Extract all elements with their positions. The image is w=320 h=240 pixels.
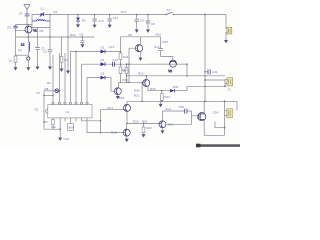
wire IF pin column 2 bbox=[59, 53, 61, 102]
transistor Q8 mosfet bbox=[198, 113, 206, 121]
wire pin column 5 bbox=[75, 52, 77, 102]
svg-text:C13: C13 bbox=[109, 45, 115, 49]
svg-text:R1: R1 bbox=[8, 25, 12, 29]
wire rail right bbox=[174, 15, 226, 29]
resistor R4 bbox=[60, 37, 68, 69]
wire Q7 emitter bbox=[162, 128, 164, 131]
transistor VT2 bbox=[168, 60, 176, 73]
wire pin jumper bbox=[44, 95, 53, 97]
svg-text:VCC: VCC bbox=[121, 10, 128, 14]
wire trimmer to ground bbox=[27, 60, 29, 67]
svg-text:R5: R5 bbox=[40, 29, 44, 33]
svg-text:C8: C8 bbox=[151, 22, 155, 26]
svg-text:R13: R13 bbox=[163, 40, 169, 44]
inductor L1 coil bbox=[32, 20, 50, 21]
svg-text:R18: R18 bbox=[111, 130, 117, 134]
wire audio line bbox=[164, 110, 192, 112]
capacitor C11 bbox=[108, 14, 119, 25]
title band bottom right bbox=[196, 144, 240, 148]
wire tank right bbox=[49, 15, 51, 50]
wire VT1 base riser bbox=[129, 48, 138, 82]
wire Q5 emitter bbox=[126, 111, 128, 123]
wire long mid line bbox=[127, 75, 226, 77]
wire ladder top riser bbox=[120, 37, 122, 52]
svg-text:R30: R30 bbox=[150, 87, 156, 91]
svg-text:36M: 36M bbox=[68, 126, 74, 130]
capacitor C1 bbox=[19, 11, 30, 24]
svg-text:L2: L2 bbox=[21, 43, 25, 47]
svg-text:V1: V1 bbox=[33, 29, 37, 33]
svg-text:R24: R24 bbox=[164, 95, 170, 99]
trimmer T1 bbox=[27, 57, 30, 60]
connector J3 bbox=[213, 109, 233, 118]
capacitor C6 bbox=[135, 14, 144, 30]
wire bias row bbox=[16, 54, 29, 56]
svg-text:C4: C4 bbox=[19, 11, 23, 15]
IC pin stub 5b bbox=[75, 118, 77, 122]
svg-text:R12: R12 bbox=[121, 68, 127, 72]
ground (VT1) bbox=[139, 58, 143, 61]
ground (IC) bbox=[58, 137, 69, 141]
wire Q3 base bbox=[111, 90, 117, 92]
svg-text:R19: R19 bbox=[119, 96, 125, 100]
wire source inner elbow bbox=[215, 121, 225, 127]
svg-text:R23: R23 bbox=[146, 126, 152, 130]
svg-text:C16: C16 bbox=[64, 137, 70, 141]
wire IC left pin bbox=[44, 121, 48, 123]
node antenna junction bbox=[26, 24, 28, 26]
svg-text:D3: D3 bbox=[101, 72, 105, 76]
main right bus bbox=[204, 15, 206, 102]
svg-text:R22: R22 bbox=[138, 72, 144, 76]
resistor R10b bbox=[51, 118, 56, 129]
ground (C11) bbox=[108, 25, 112, 28]
ground (Q7) bbox=[161, 130, 165, 133]
switch S1 bbox=[166, 8, 175, 15]
wire Q3 emitter bbox=[117, 95, 119, 96]
svg-text:R6: R6 bbox=[128, 33, 132, 37]
wire IF pin column 3 bbox=[64, 53, 66, 102]
svg-text:C34: C34 bbox=[213, 110, 219, 114]
svg-text:1k: 1k bbox=[9, 59, 13, 63]
wire rail ground branch bbox=[67, 15, 69, 71]
IC U1 bbox=[46, 105, 92, 118]
svg-text:C9: C9 bbox=[79, 33, 83, 37]
wire trimmer line bbox=[44, 89, 60, 93]
wire pin to Q5 elbow bbox=[82, 110, 126, 133]
wire Q6 collector bbox=[126, 123, 128, 129]
connector J2 bbox=[225, 78, 233, 92]
ground stub 1 on bias line bbox=[66, 71, 70, 74]
wire Q3 collector bbox=[117, 82, 119, 88]
svg-text:R11: R11 bbox=[123, 55, 129, 59]
top supply rail bbox=[50, 14, 166, 16]
wire VT2 output bbox=[150, 64, 187, 76]
svg-text:Aud: Aud bbox=[166, 107, 172, 111]
resistor R14 bbox=[119, 64, 129, 83]
wire Q4 collector bbox=[145, 76, 147, 80]
svg-text:D5: D5 bbox=[82, 19, 86, 23]
node dots bias line bbox=[28, 36, 30, 38]
capacitor C15 bbox=[112, 58, 118, 67]
svg-text:C6: C6 bbox=[140, 19, 144, 23]
svg-text:C12: C12 bbox=[154, 45, 160, 49]
wire Q7 output bbox=[166, 123, 192, 125]
ground (L2) bbox=[26, 67, 30, 70]
wire det line 2 bbox=[82, 64, 188, 102]
wire right link vertical bbox=[224, 80, 226, 87]
svg-text:R9: R9 bbox=[47, 81, 51, 85]
ground (R24) bbox=[159, 101, 163, 107]
wire base V1 bbox=[16, 30, 26, 37]
svg-text:C31: C31 bbox=[212, 70, 218, 74]
wire bottom jumper bbox=[44, 128, 60, 130]
crystal X1 bbox=[68, 118, 75, 130]
svg-text:J2: J2 bbox=[228, 87, 232, 91]
capacitor C3 bbox=[35, 28, 45, 67]
diode VD6 bbox=[170, 85, 187, 92]
inductor L2 bbox=[21, 42, 30, 52]
svg-text:R26: R26 bbox=[142, 119, 148, 123]
transistor V1 bbox=[25, 26, 37, 33]
wire det line 3 bbox=[87, 78, 111, 102]
wire VT1 collector bbox=[140, 37, 142, 45]
svg-text:C11: C11 bbox=[113, 16, 119, 20]
wire Q3 collector / Q4 base line bbox=[118, 81, 145, 83]
wire VT2 base bbox=[172, 57, 174, 61]
svg-text:R20: R20 bbox=[133, 119, 139, 123]
transistor Q4 bbox=[143, 80, 150, 87]
ground (D5) bbox=[76, 24, 80, 27]
wire long bias line bbox=[16, 36, 95, 38]
wire Q8 drain bbox=[203, 101, 205, 114]
wire tank left bbox=[31, 15, 33, 28]
svg-text:S1: S1 bbox=[167, 8, 171, 12]
svg-text:D1: D1 bbox=[101, 45, 105, 49]
connector J1 bbox=[226, 27, 232, 40]
svg-text:R16: R16 bbox=[123, 78, 129, 82]
ground (R23) bbox=[142, 134, 146, 137]
ground (C10) bbox=[93, 25, 97, 28]
wire pin gnd column bbox=[59, 118, 61, 138]
ground (C4b) bbox=[48, 67, 52, 70]
wire J2 feed bbox=[205, 79, 225, 81]
wire Q5 collector line bbox=[127, 101, 237, 110]
ground (C8) bbox=[146, 30, 150, 33]
transistor Q5 bbox=[124, 104, 131, 111]
ground (Q6) bbox=[125, 139, 129, 142]
wire gate link bbox=[192, 111, 199, 124]
capacitor C2 bbox=[8, 25, 18, 32]
wire collector rail bbox=[32, 28, 50, 33]
svg-text:R7: R7 bbox=[37, 91, 41, 95]
diode D3 bbox=[101, 72, 106, 80]
wire Q4 emitter line bbox=[148, 86, 170, 90]
wire emitter V1 bbox=[27, 33, 29, 42]
wire below L2 bbox=[27, 52, 29, 57]
svg-text:R8: R8 bbox=[45, 87, 49, 91]
svg-text:R29: R29 bbox=[134, 89, 140, 93]
svg-text:R15: R15 bbox=[156, 33, 162, 37]
svg-text:V2: V2 bbox=[168, 69, 172, 73]
ground (C6) bbox=[135, 30, 139, 33]
svg-text:R2: R2 bbox=[35, 108, 39, 112]
svg-text:C10: C10 bbox=[98, 19, 104, 23]
svg-text:R21: R21 bbox=[134, 93, 140, 97]
wire J3 drop bbox=[224, 101, 226, 127]
capacitor C35 bbox=[179, 105, 187, 114]
transistor VT1 bbox=[135, 45, 142, 52]
wire Q6 emitter bbox=[126, 136, 128, 139]
capacitor C8 bbox=[146, 14, 155, 30]
svg-text:D2: D2 bbox=[101, 58, 105, 62]
wire mid right line bbox=[187, 85, 225, 87]
svg-text:L1: L1 bbox=[41, 6, 45, 10]
wire emitter bus bbox=[127, 122, 161, 124]
capacitor C12 bbox=[154, 37, 173, 57]
wire IC left riser bbox=[43, 91, 45, 129]
ground (Q3) bbox=[116, 96, 120, 99]
svg-text:10k: 10k bbox=[51, 125, 56, 129]
IC pin bubbles top bbox=[52, 102, 88, 104]
diode D2 bbox=[101, 58, 106, 66]
node bus top bbox=[204, 14, 206, 16]
svg-text:U1: U1 bbox=[66, 110, 70, 114]
resistor R11 bbox=[119, 51, 129, 65]
svg-text:D4: D4 bbox=[54, 10, 58, 14]
capacitor C10 bbox=[92, 14, 103, 25]
transistor Q3 bbox=[114, 88, 121, 95]
ground (R4) bbox=[60, 69, 64, 72]
svg-text:C35: C35 bbox=[179, 105, 185, 109]
wire VT1 emitter bbox=[140, 52, 142, 58]
transistor Q7 bbox=[159, 121, 166, 128]
wire tank top L1 bbox=[32, 6, 50, 14]
wire V1 collector bbox=[28, 25, 30, 27]
capacitor C4b bbox=[43, 49, 52, 66]
diode D1 bbox=[101, 45, 106, 53]
ground stub 2 on bias line bbox=[80, 36, 84, 48]
svg-text:C15: C15 bbox=[113, 58, 119, 62]
svg-text:R3: R3 bbox=[18, 49, 22, 53]
capacitor C31 bbox=[204, 69, 218, 74]
diode D5 bbox=[76, 14, 86, 25]
wire VD6 riser bbox=[186, 86, 188, 90]
IC pin stub 3b bbox=[64, 118, 66, 121]
wire Q7 collector tap bbox=[163, 111, 164, 121]
svg-text:VD6: VD6 bbox=[173, 85, 179, 89]
ground (C3) bbox=[36, 67, 40, 70]
transistor Q6 bbox=[123, 129, 130, 136]
wire mid supply line bbox=[121, 36, 161, 38]
resistor R3 bbox=[9, 37, 22, 67]
ground (R3) bbox=[14, 67, 18, 70]
wire bias drop bbox=[141, 82, 143, 101]
wire Q8 source loop bbox=[204, 119, 224, 135]
ground (J1) bbox=[224, 40, 228, 43]
resistor R23 bbox=[142, 123, 152, 134]
wire det line 1 bbox=[71, 52, 121, 102]
resistor R12 bbox=[121, 63, 128, 82]
antenna W1 bbox=[24, 5, 30, 14]
svg-text:R17: R17 bbox=[108, 106, 114, 110]
wire IF pin column 1 bbox=[52, 55, 54, 102]
svg-text:R10: R10 bbox=[70, 33, 76, 37]
varactor D4 bbox=[40, 10, 58, 17]
resistor R24 bbox=[160, 90, 170, 101]
wire pin to Q6 base bbox=[87, 118, 125, 133]
wire antenna junction bbox=[16, 24, 33, 26]
svg-text:C5: C5 bbox=[43, 49, 47, 53]
